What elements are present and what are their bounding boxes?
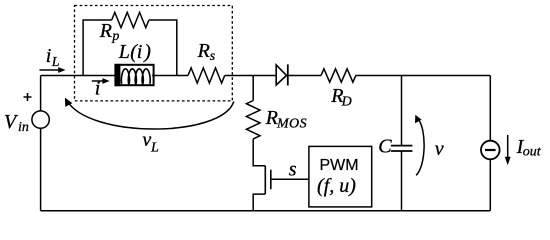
arrow Iout direction — [507, 135, 509, 158]
svg-text:(f, u): (f, u) — [317, 175, 356, 197]
inductor black bar — [115, 64, 121, 86]
wire left: Vin bottom down to bottom wire — [40, 128, 42, 210]
wire left: corner down to Vin top — [40, 76, 42, 112]
current source Iout circle — [481, 141, 500, 160]
wire top: diode cathode to RD — [288, 75, 321, 77]
transistor MOSFET channel bar — [264, 166, 266, 194]
svg-text:PWM: PWM — [319, 157, 358, 174]
minus bar inside Iout — [485, 149, 496, 151]
plus sign of Vin — [24, 93, 32, 101]
wire RMOS to MOSFET drain — [253, 139, 265, 166]
svg-text:i: i — [46, 45, 52, 67]
svg-text:s: s — [210, 49, 216, 64]
svg-text:in: in — [18, 120, 29, 135]
diode cathode bar — [287, 64, 289, 85]
inductor coil loops — [121, 69, 150, 84]
svg-text:i: i — [95, 78, 101, 100]
inductor L(i) box — [115, 65, 153, 85]
svg-text:): ) — [143, 41, 151, 63]
resistor RMOS — [246, 101, 260, 139]
wire top: left corner to inductor — [41, 75, 116, 77]
arrow iL — [40, 69, 61, 71]
wire bottom — [41, 210, 491, 212]
wire top: RD to top-right corner — [356, 75, 491, 77]
svg-text:out: out — [523, 144, 542, 159]
svg-text:L: L — [51, 55, 60, 70]
svg-text:i: i — [137, 41, 143, 63]
svg-text:D: D — [341, 94, 352, 109]
measurement arrow v across C — [416, 118, 424, 175]
resistor RD — [321, 69, 356, 82]
wire Rp branch left riser — [83, 20, 112, 76]
wire right: top corner down to Iout — [489, 76, 491, 141]
wire gate to PWM — [271, 178, 309, 180]
voltage source Vin circle — [32, 111, 49, 128]
resistor Rp — [112, 12, 149, 27]
measurement arc vL — [67, 100, 234, 129]
PWM block — [309, 146, 372, 207]
wire top: inductor to Rs — [152, 75, 188, 77]
diode D — [276, 65, 286, 85]
node wire down to RMOS — [252, 76, 254, 101]
svg-text:R: R — [99, 20, 112, 42]
MOSFET source lead — [253, 194, 265, 211]
MOSFET gate bar — [270, 170, 272, 190]
svg-text:R: R — [197, 40, 210, 62]
svg-text:MOS: MOS — [276, 117, 307, 132]
svg-text:L: L — [118, 41, 130, 63]
wire right: Iout down to bottom corner — [489, 160, 491, 211]
wire capacitor branch bottom — [401, 152, 403, 211]
svg-text:L: L — [150, 140, 159, 155]
wire capacitor branch top — [401, 76, 403, 146]
svg-text:s: s — [289, 159, 297, 181]
svg-text:C: C — [378, 136, 392, 158]
wire Rp branch right riser — [149, 20, 177, 76]
arrow i (inductor current) — [92, 80, 105, 82]
dashed box around inductor model — [75, 6, 233, 101]
svg-text:v: v — [435, 138, 444, 160]
wire top: Rs to diode anode — [225, 75, 277, 77]
resistor Rs — [188, 68, 225, 83]
capacitor C plates — [391, 146, 413, 151]
